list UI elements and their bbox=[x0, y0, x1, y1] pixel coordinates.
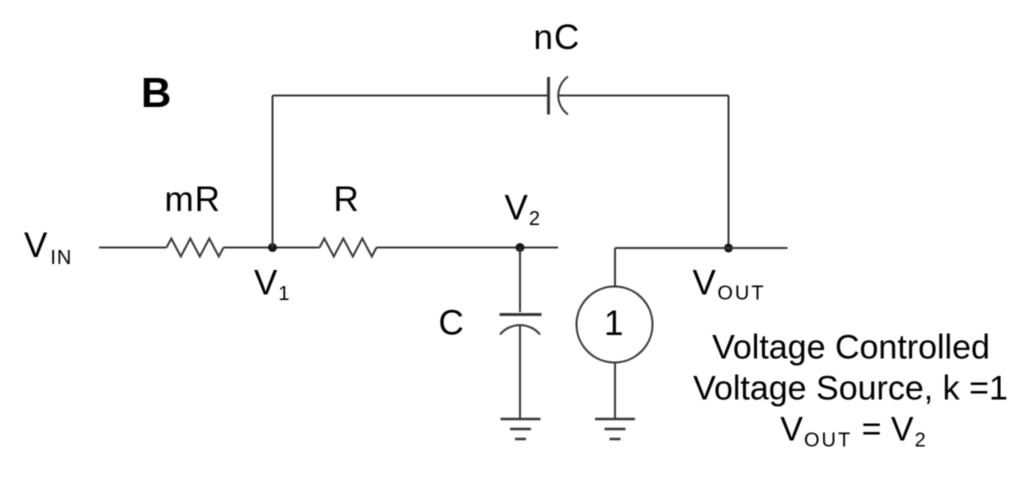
svg-text:mR: mR bbox=[165, 180, 221, 219]
wire bbox=[558, 95, 729, 97]
svg-text:V1: V1 bbox=[254, 264, 289, 306]
svg-text:VOUT: VOUT bbox=[693, 264, 766, 305]
node VOUT bbox=[724, 244, 733, 253]
wire bbox=[273, 95, 548, 97]
ground bbox=[595, 419, 635, 439]
node V2 bbox=[516, 243, 525, 252]
svg-text:VIN: VIN bbox=[24, 226, 72, 269]
svg-text:C: C bbox=[439, 304, 464, 343]
svg-text:Voltage Controlled: Voltage Controlled bbox=[712, 329, 990, 367]
node V1 bbox=[268, 243, 277, 252]
svg-text:V2: V2 bbox=[505, 189, 540, 231]
resistor mR bbox=[167, 239, 224, 257]
annotation bbox=[693, 329, 1008, 452]
wire bbox=[519, 325, 521, 418]
wire bbox=[614, 248, 616, 287]
wire bbox=[615, 247, 788, 249]
ground bbox=[501, 419, 541, 439]
capacitor C bbox=[500, 315, 542, 335]
capacitor nC bbox=[549, 77, 569, 115]
svg-text:nC: nC bbox=[534, 18, 581, 57]
svg-text:Voltage Source, k =1: Voltage Source, k =1 bbox=[693, 370, 1008, 408]
wire bbox=[377, 247, 559, 249]
svg-text:1: 1 bbox=[604, 304, 623, 343]
svg-text:VOUT = V2: VOUT = V2 bbox=[780, 411, 925, 452]
svg-text:B: B bbox=[141, 69, 171, 116]
wire bbox=[728, 96, 730, 249]
resistor R bbox=[320, 239, 377, 257]
wire bbox=[272, 96, 274, 248]
svg-text:R: R bbox=[334, 180, 359, 219]
source U1 bbox=[577, 287, 653, 363]
wire bbox=[519, 248, 521, 313]
wire bbox=[224, 247, 320, 249]
wire bbox=[614, 363, 616, 419]
wire bbox=[99, 247, 167, 249]
